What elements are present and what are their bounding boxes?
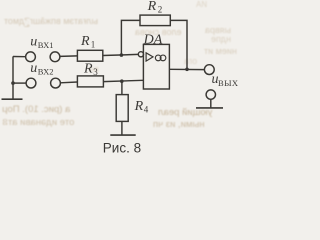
op-amp infinity gain symbol (right loop) xyxy=(160,55,166,61)
wire: u_BX1 terminal to R1 xyxy=(60,55,78,58)
op-amp DA body xyxy=(143,44,169,89)
svg-text:ВХ1: ВХ1 xyxy=(38,40,54,50)
resistor R3 xyxy=(77,76,103,87)
svg-text:3: 3 xyxy=(93,67,98,77)
ground (output common) xyxy=(196,107,223,109)
ground (R4) xyxy=(110,134,135,136)
bleed-through ghost text from reverse page side xyxy=(4,16,98,29)
terminal: output common (lower right) xyxy=(206,90,215,99)
svg-text:1: 1 xyxy=(91,40,96,50)
wire: R2 right branch xyxy=(170,20,187,69)
terminal: u_BX1 left xyxy=(26,52,36,62)
wire: R1 to op-amp inverting input xyxy=(103,54,139,55)
junction: node output/R2 xyxy=(185,68,189,72)
terminal: u_VYH output xyxy=(204,65,214,75)
svg-text:4: 4 xyxy=(144,105,149,115)
junction: node R3/R4 xyxy=(120,79,124,83)
resistor R4 (vertical) xyxy=(116,95,128,122)
svg-text:R: R xyxy=(83,62,93,77)
wire: left common rail xyxy=(12,56,14,98)
svg-text:R: R xyxy=(134,99,144,114)
junction: node R1/R2 xyxy=(120,53,124,57)
terminal: u_BX2 left xyxy=(26,78,36,88)
wire: u_BX2 terminal to R3 xyxy=(60,81,77,84)
wire: R4 to ground xyxy=(121,121,123,134)
wire: rail to u_BX1 left terminal xyxy=(13,56,26,58)
svg-text:ВЫХ: ВЫХ xyxy=(218,78,238,88)
wire: R3 to op-amp non-inverting input xyxy=(103,80,143,81)
resistor R2 xyxy=(140,15,170,26)
svg-text:R: R xyxy=(80,34,90,49)
svg-text:DA: DA xyxy=(143,33,163,48)
svg-text:Рис. 8: Рис. 8 xyxy=(103,141,141,156)
svg-text:u: u xyxy=(30,61,37,76)
ground (left rail) xyxy=(2,98,23,100)
wire: R2 left branch xyxy=(121,20,140,55)
terminal: u_BX2 right xyxy=(51,78,61,88)
wire: common terminal to ground xyxy=(210,99,212,107)
svg-text:R: R xyxy=(147,0,157,14)
svg-text:ВХ2: ВХ2 xyxy=(38,67,54,77)
junction: rail / u_BX2 xyxy=(11,81,15,85)
wire: op-amp output xyxy=(169,68,204,70)
svg-text:2: 2 xyxy=(158,4,163,14)
op-amp DA amplifier triangle xyxy=(146,53,153,61)
wire: rail to u_BX2 left terminal xyxy=(13,82,26,84)
op-amp DA inversion circle on inverting input xyxy=(138,52,143,57)
op-amp infinity gain symbol (left loop) xyxy=(155,55,161,61)
svg-text:u: u xyxy=(30,34,37,49)
terminal: u_BX1 right xyxy=(50,52,60,62)
wire: R4 branch down xyxy=(121,81,123,94)
resistor R1 xyxy=(77,50,102,61)
